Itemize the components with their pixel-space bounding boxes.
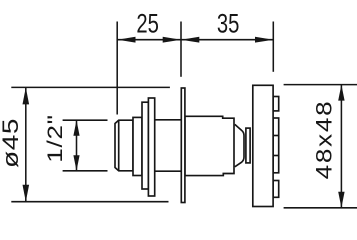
- terminal tab 5: [273, 181, 279, 198]
- terminal divider 1: [273, 135, 279, 137]
- ø45 bottom extension line: [11, 201, 168, 203]
- 48x48 bottom extension line: [284, 207, 357, 209]
- arrow 35 right: [255, 37, 273, 43]
- arrow 35 left: [181, 37, 199, 43]
- coupling bell: [235, 124, 244, 166]
- stem disc: [246, 128, 250, 163]
- hex nut: [133, 117, 142, 175]
- svg-text:1/2": 1/2": [43, 114, 66, 163]
- 1/2 top tick line: [63, 119, 108, 121]
- arrow ø45 down: [23, 185, 30, 202]
- arrow 25 right: [163, 37, 181, 43]
- 48x48 dimension line: [340, 85, 342, 208]
- thread chamfer line: [118, 120, 120, 171]
- 1/2 dimension line: [76, 120, 78, 171]
- terminal tab 1: [273, 97, 279, 111]
- extension line 25-left (thread front face): [116, 22, 118, 115]
- ø45 top extension line: [11, 86, 170, 88]
- barrel section bottom line: [155, 170, 182, 172]
- terminal block (three contacts): [273, 118, 279, 173]
- threaded bushing (1/2" thread, chamfered): [115, 120, 133, 171]
- arrow 48x48 down: [338, 192, 344, 208]
- barrel section top line: [155, 119, 182, 121]
- ø45 dimension line: [25, 87, 27, 201]
- extension line 35-right (switch block rear): [272, 22, 274, 72]
- svg-text:48x48: 48x48: [312, 100, 337, 180]
- svg-text:35: 35: [217, 9, 240, 39]
- switch block 48x48: [253, 85, 273, 206]
- extension line 25/35 shared (panel face): [180, 22, 182, 77]
- terminal divider 2: [273, 155, 279, 157]
- svg-text:ø45: ø45: [0, 118, 23, 168]
- arrow 25 left: [117, 37, 135, 43]
- arrow 1/2 down: [73, 155, 79, 171]
- arrow 48x48 up: [338, 85, 344, 101]
- arrow ø45 up: [23, 87, 30, 104]
- dimension line 25/35: [117, 39, 273, 41]
- arrow 1/2 up: [73, 120, 79, 136]
- 48x48 top extension line: [284, 84, 357, 86]
- switch body: [185, 116, 234, 175]
- mounting panel: [181, 88, 185, 203]
- 1/2 bottom tick line: [63, 170, 108, 172]
- bezel plate: [148, 98, 154, 196]
- svg-text:25: 25: [136, 9, 159, 39]
- locknut: [142, 102, 148, 189]
